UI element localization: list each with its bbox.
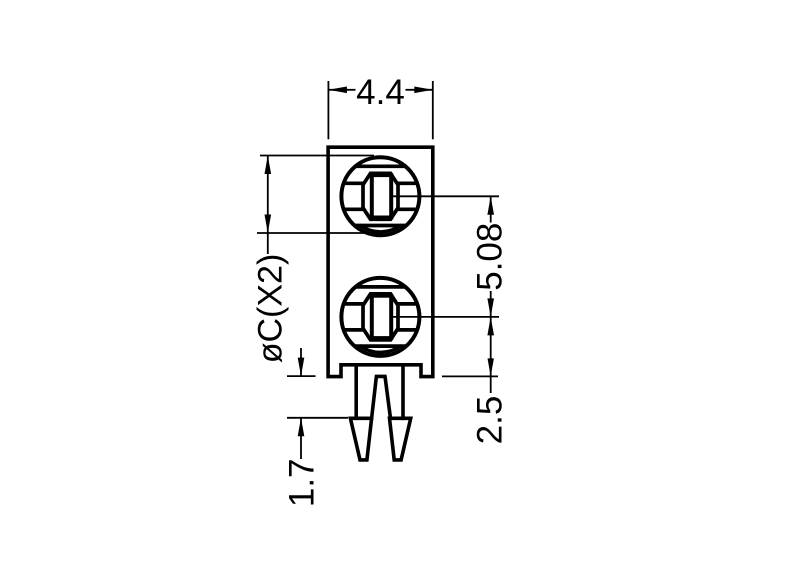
svg-text:4.4: 4.4 (356, 73, 405, 112)
svg-text:øC(X2): øC(X2) (252, 254, 290, 364)
svg-text:2.5: 2.5 (471, 396, 510, 445)
svg-text:1.7: 1.7 (283, 458, 322, 507)
svg-text:5.08: 5.08 (471, 223, 510, 291)
